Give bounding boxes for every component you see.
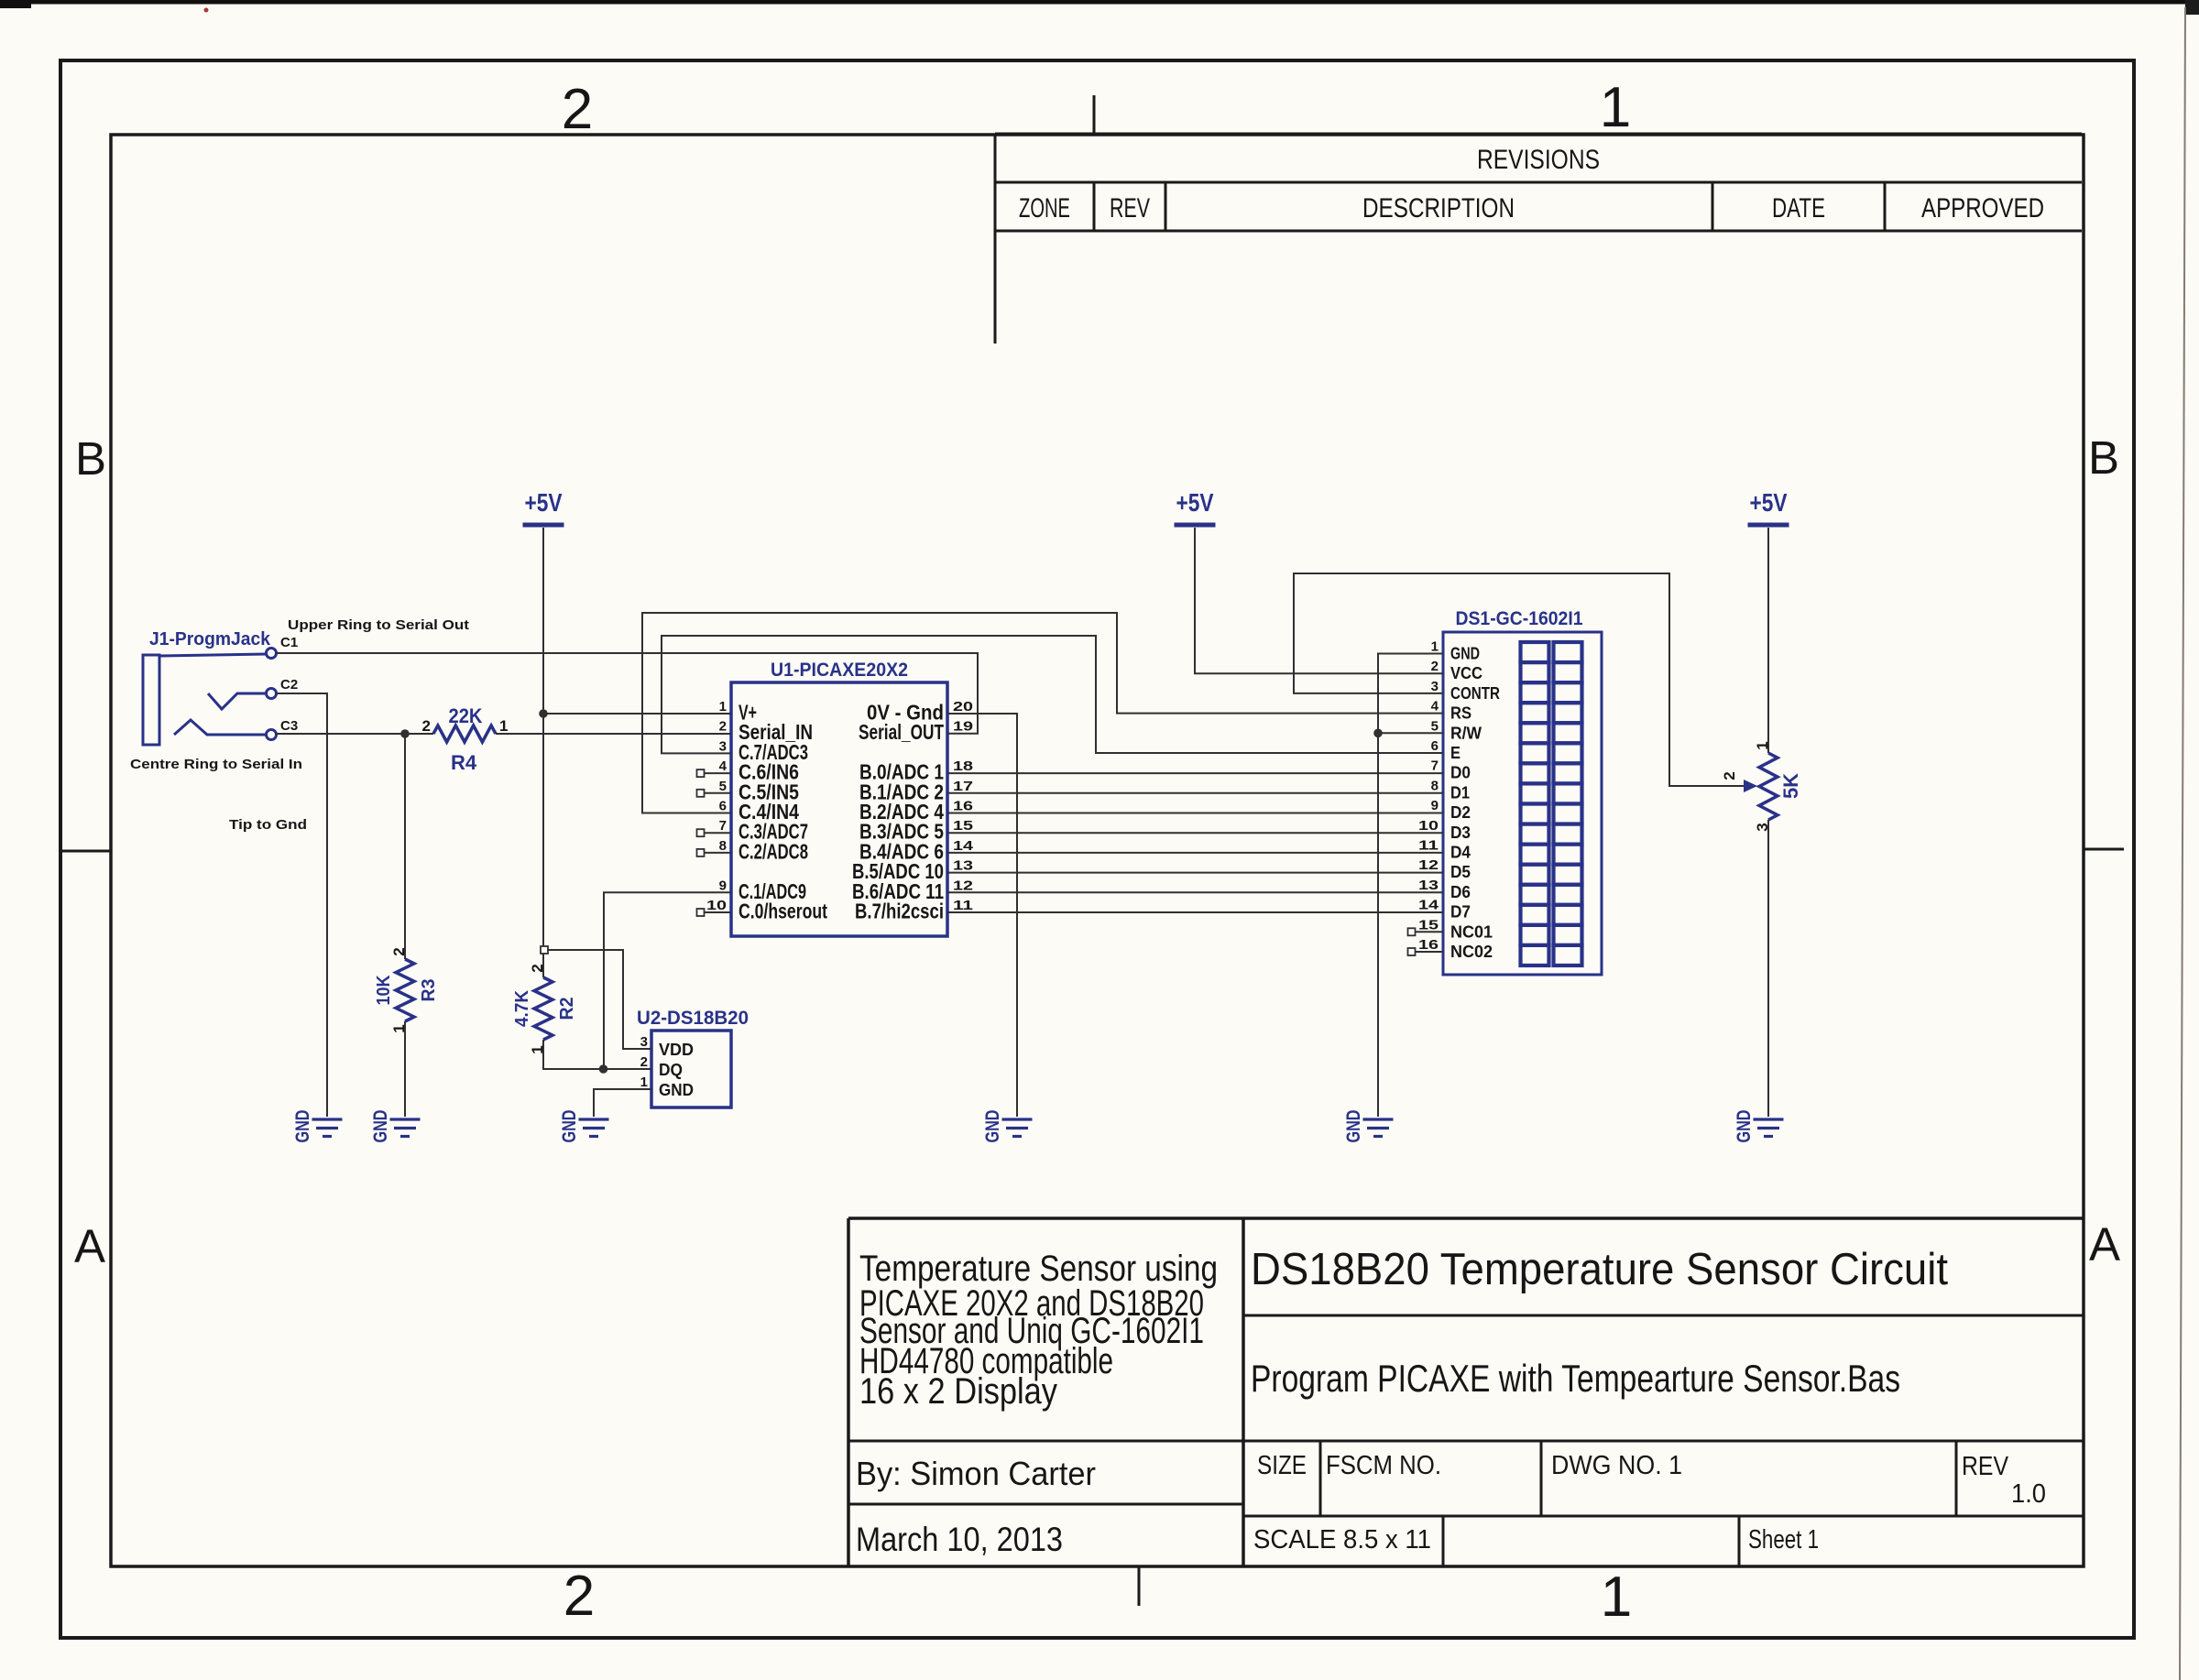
revisions title bbox=[1477, 145, 1600, 175]
wire +5V to pot pin1 bbox=[1767, 528, 1769, 753]
svg-text:D4: D4 bbox=[1450, 844, 1471, 862]
svg-text:J1-ProgmJack: J1-ProgmJack bbox=[149, 629, 271, 649]
svg-text:FSCM NO.: FSCM NO. bbox=[1326, 1451, 1441, 1480]
svg-text:APPROVED: APPROVED bbox=[1921, 193, 2044, 224]
svg-text:D6: D6 bbox=[1450, 883, 1471, 901]
svg-text:D0: D0 bbox=[1450, 764, 1471, 782]
wire VDD branch bbox=[541, 946, 651, 1049]
svg-text:2: 2 bbox=[719, 719, 727, 735]
svg-text:U1-PICAXE20X2: U1-PICAXE20X2 bbox=[771, 660, 908, 681]
svg-text:13: 13 bbox=[953, 858, 973, 874]
svg-text:REV: REV bbox=[1110, 193, 1150, 224]
ic U1 pin names bbox=[738, 701, 944, 923]
svg-text:11: 11 bbox=[953, 898, 973, 913]
svg-text:A: A bbox=[74, 1220, 105, 1272]
svg-text:12: 12 bbox=[953, 878, 973, 893]
svg-text:13: 13 bbox=[1418, 878, 1439, 893]
svg-text:DESCRIPTION: DESCRIPTION bbox=[1362, 193, 1515, 224]
label pot pin3 bbox=[1754, 823, 1771, 831]
display LCD cell column 1 bbox=[1521, 642, 1549, 965]
node DQ junction bbox=[599, 1064, 608, 1074]
jack J1 body bbox=[143, 654, 267, 745]
note tip bbox=[229, 817, 307, 833]
svg-text:16: 16 bbox=[1418, 937, 1439, 953]
svg-text:D3: D3 bbox=[1450, 824, 1471, 842]
svg-text:15: 15 bbox=[1418, 917, 1439, 933]
svg-text:3: 3 bbox=[640, 1034, 648, 1050]
title desc line1 bbox=[859, 1249, 1218, 1289]
node C3 / R3 junction bbox=[400, 729, 410, 738]
zone tick right bbox=[2084, 848, 2124, 851]
display unconnected pins NC01 NC02 bbox=[1408, 928, 1444, 955]
wire C2 to ground bbox=[276, 693, 327, 1117]
resistor R2 4.7K bbox=[534, 977, 552, 1040]
title size bbox=[1257, 1451, 1307, 1480]
svg-text:11: 11 bbox=[1418, 838, 1439, 854]
svg-text:1: 1 bbox=[640, 1075, 648, 1090]
ic U1 unconnected pins 4 5 7 8 10 bbox=[697, 769, 732, 916]
zone tick left bbox=[60, 850, 111, 853]
svg-text:By: Simon Carter: By: Simon Carter bbox=[856, 1455, 1096, 1492]
title program bbox=[1251, 1357, 1900, 1400]
label C3 bbox=[280, 718, 298, 734]
svg-text:DS18B20 Temperature Sensor Cir: DS18B20 Temperature Sensor Circuit bbox=[1251, 1245, 1948, 1294]
label R2 pin1 bbox=[529, 1045, 546, 1053]
zone label A left bbox=[74, 1220, 105, 1272]
label C2 bbox=[280, 677, 298, 693]
ground (pot) bbox=[1734, 1110, 1784, 1143]
display pin names bbox=[1450, 645, 1500, 962]
svg-text:1.0: 1.0 bbox=[2011, 1479, 2046, 1509]
svg-text:10K: 10K bbox=[374, 975, 394, 1005]
svg-text:5: 5 bbox=[719, 779, 727, 794]
title fscm bbox=[1326, 1451, 1441, 1480]
zone label 2 bottom bbox=[563, 1565, 595, 1628]
wire C1 to Serial_OUT bbox=[276, 653, 978, 734]
wire R3 to ground bbox=[404, 1021, 406, 1117]
jack J1 label bbox=[149, 629, 271, 649]
label R3 pin1 bbox=[390, 1024, 408, 1032]
svg-text:NC02: NC02 bbox=[1450, 943, 1493, 961]
svg-text:+5V: +5V bbox=[1750, 488, 1788, 517]
svg-text:+5V: +5V bbox=[1176, 488, 1214, 517]
ic U1-PICAXE20X2 box bbox=[731, 682, 947, 936]
svg-text:22K: 22K bbox=[449, 704, 483, 727]
svg-text:3: 3 bbox=[719, 738, 727, 754]
ground (display) bbox=[1343, 1110, 1394, 1143]
svg-text:C3: C3 bbox=[280, 718, 298, 734]
svg-text:1: 1 bbox=[1600, 76, 1631, 139]
svg-text:U2-DS18B20: U2-DS18B20 bbox=[637, 1008, 749, 1029]
svg-text:Centre Ring to Serial In: Centre Ring to Serial In bbox=[130, 757, 302, 772]
title desc line2 bbox=[859, 1283, 1204, 1324]
svg-text:+5V: +5V bbox=[525, 488, 563, 517]
title by bbox=[856, 1455, 1096, 1492]
svg-text:GND: GND bbox=[1734, 1110, 1755, 1143]
svg-text:NC01: NC01 bbox=[1450, 922, 1493, 941]
title sheet bbox=[1748, 1525, 1819, 1555]
svg-text:4: 4 bbox=[719, 758, 728, 774]
wire pot pin3 to ground bbox=[1767, 820, 1769, 1117]
svg-text:SIZE: SIZE bbox=[1257, 1451, 1307, 1480]
wire C.7/ADC3 to E bbox=[662, 636, 1443, 753]
label 5K bbox=[1779, 773, 1802, 799]
revisions col rev bbox=[1110, 193, 1150, 224]
zone tick top bbox=[1093, 95, 1096, 135]
zone label B left bbox=[75, 432, 106, 485]
svg-text:R3: R3 bbox=[419, 979, 439, 1002]
svg-text:VDD: VDD bbox=[659, 1041, 694, 1059]
+5V symbol right bbox=[1748, 488, 1789, 525]
svg-text:5: 5 bbox=[1431, 718, 1439, 734]
label R4 pin2 bbox=[422, 717, 431, 735]
svg-text:RS: RS bbox=[1450, 704, 1471, 723]
svg-text:2: 2 bbox=[640, 1054, 648, 1070]
svg-text:A: A bbox=[2089, 1218, 2120, 1271]
zone label A right bbox=[2089, 1218, 2120, 1271]
display DS1-GC-1602I1 box bbox=[1443, 632, 1602, 975]
revisions table frame bbox=[995, 134, 2082, 344]
title desc line5 bbox=[859, 1371, 1057, 1412]
title rev bbox=[1962, 1452, 2009, 1481]
zone label 2 top bbox=[562, 78, 593, 141]
title desc line4 bbox=[859, 1341, 1113, 1381]
sensor U2 label bbox=[637, 1008, 749, 1029]
label R3 pin2 bbox=[390, 947, 408, 955]
ground (R3) bbox=[370, 1110, 421, 1143]
svg-text:D1: D1 bbox=[1450, 783, 1470, 802]
svg-text:2: 2 bbox=[1431, 659, 1439, 674]
scan speck red bbox=[204, 8, 209, 13]
svg-text:2: 2 bbox=[562, 78, 593, 141]
wire node to R3 bbox=[404, 734, 406, 959]
potentiometer 5K bbox=[1744, 753, 1778, 820]
label R4 pin1 bbox=[499, 717, 508, 735]
wire U2 GND to ground bbox=[594, 1089, 651, 1117]
svg-text:7: 7 bbox=[1431, 758, 1439, 774]
svg-text:2: 2 bbox=[422, 717, 431, 735]
jack contact C1 bbox=[267, 649, 277, 659]
label R2 bbox=[557, 998, 577, 1020]
svg-text:GND: GND bbox=[659, 1081, 694, 1099]
ground (U2) bbox=[559, 1110, 609, 1143]
node R/W ground junction bbox=[1373, 729, 1383, 738]
note centre ring bbox=[130, 757, 302, 772]
svg-text:15: 15 bbox=[953, 818, 973, 834]
svg-text:5K: 5K bbox=[1779, 773, 1802, 799]
node +5V / V+ junction bbox=[539, 709, 548, 718]
revisions col date bbox=[1772, 193, 1825, 224]
title block frame bbox=[848, 1218, 2084, 1566]
display pin numbers bbox=[1418, 639, 1439, 954]
svg-text:Sheet 1: Sheet 1 bbox=[1748, 1525, 1819, 1555]
svg-text:8: 8 bbox=[1431, 778, 1439, 793]
zone label 1 top bbox=[1600, 76, 1631, 139]
ic U1 pin numbers bbox=[706, 699, 974, 913]
jack contact C2 bbox=[208, 689, 277, 710]
wire +5V to VCC bbox=[1195, 528, 1443, 673]
svg-text:9: 9 bbox=[1431, 798, 1439, 813]
svg-text:16: 16 bbox=[953, 799, 973, 814]
title rev value bbox=[2011, 1479, 2046, 1509]
svg-text:C.2/ADC8: C.2/ADC8 bbox=[738, 839, 808, 863]
svg-text:6: 6 bbox=[1431, 738, 1439, 754]
svg-text:8: 8 bbox=[719, 838, 727, 854]
svg-text:Serial_OUT: Serial_OUT bbox=[859, 720, 944, 744]
wire C.4/IN4 to RS bbox=[642, 613, 1443, 813]
svg-text:Tip to Gnd: Tip to Gnd bbox=[229, 817, 307, 833]
wire R/W to ground rail bbox=[1378, 732, 1443, 734]
svg-text:REVISIONS: REVISIONS bbox=[1477, 145, 1600, 175]
svg-text:14: 14 bbox=[1418, 898, 1439, 913]
svg-text:7: 7 bbox=[719, 818, 727, 834]
svg-text:18: 18 bbox=[953, 758, 973, 774]
svg-text:REV: REV bbox=[1962, 1452, 2009, 1481]
ground (jack sleeve) bbox=[292, 1110, 343, 1143]
svg-text:4: 4 bbox=[1431, 699, 1439, 715]
sensor U2 pin names bbox=[659, 1041, 694, 1099]
svg-text:E: E bbox=[1450, 744, 1461, 762]
svg-text:VCC: VCC bbox=[1450, 664, 1482, 682]
svg-text:17: 17 bbox=[953, 779, 973, 794]
title main bbox=[1251, 1245, 1948, 1294]
svg-text:16 x 2 Display: 16 x 2 Display bbox=[859, 1371, 1057, 1412]
label 4.7K bbox=[512, 989, 532, 1027]
svg-text:GND: GND bbox=[1343, 1110, 1364, 1143]
svg-text:4.7K: 4.7K bbox=[512, 989, 532, 1027]
wire CONTR to pot wiper bbox=[1294, 573, 1744, 786]
title scale bbox=[1253, 1525, 1431, 1555]
zone label B right bbox=[2088, 431, 2119, 484]
svg-text:10: 10 bbox=[706, 898, 727, 913]
label R2 pin2 bbox=[529, 964, 546, 972]
title dwg bbox=[1551, 1451, 1682, 1480]
ic U1 label bbox=[771, 660, 908, 681]
note upper ring bbox=[288, 617, 469, 633]
zone tick bottom bbox=[1138, 1566, 1141, 1606]
svg-text:GND: GND bbox=[292, 1110, 313, 1143]
svg-text:9: 9 bbox=[719, 878, 727, 893]
label R4 bbox=[451, 751, 477, 774]
wire R4 to Serial_IN bbox=[496, 733, 731, 735]
svg-text:12: 12 bbox=[1418, 857, 1439, 873]
title date bbox=[856, 1521, 1063, 1558]
svg-text:D5: D5 bbox=[1450, 863, 1471, 881]
svg-text:GND: GND bbox=[370, 1110, 391, 1143]
svg-text:R4: R4 bbox=[451, 751, 477, 774]
svg-text:SCALE 8.5 x 11: SCALE 8.5 x 11 bbox=[1253, 1525, 1431, 1555]
sensor U2-DS18B20 box bbox=[651, 1031, 731, 1107]
title desc line3 bbox=[859, 1311, 1204, 1351]
svg-text:20: 20 bbox=[953, 699, 973, 715]
svg-text:GND: GND bbox=[1450, 645, 1480, 663]
revisions col zone bbox=[1019, 193, 1070, 224]
svg-text:2: 2 bbox=[1721, 771, 1738, 780]
label R3 bbox=[419, 979, 439, 1002]
wire +5V rail left bbox=[542, 528, 544, 977]
svg-text:1: 1 bbox=[719, 699, 727, 715]
svg-text:ZONE: ZONE bbox=[1019, 193, 1070, 224]
display LCD cell column 2 bbox=[1554, 642, 1582, 965]
label pot pin1 bbox=[1754, 741, 1771, 749]
svg-text:1: 1 bbox=[1431, 639, 1439, 655]
scan edge right bbox=[2180, 7, 2185, 1680]
svg-text:1: 1 bbox=[1601, 1565, 1632, 1629]
svg-text:14: 14 bbox=[953, 838, 974, 854]
svg-text:Upper Ring to Serial Out: Upper Ring to Serial Out bbox=[288, 617, 469, 633]
svg-text:10: 10 bbox=[1418, 818, 1439, 834]
jack contact C3 bbox=[174, 720, 277, 740]
wire data bus B.0-B.7 to D0-D7 bbox=[947, 773, 1443, 912]
scan edge top bbox=[0, 0, 2199, 15]
svg-text:DS1-GC-1602I1: DS1-GC-1602I1 bbox=[1456, 608, 1583, 629]
svg-text:C1: C1 bbox=[280, 635, 298, 650]
wire C.1/ADC9 to DQ bbox=[604, 892, 731, 1069]
+5V symbol left bbox=[523, 488, 564, 525]
svg-text:DATE: DATE bbox=[1772, 193, 1825, 224]
svg-text:March 10, 2013: March 10, 2013 bbox=[856, 1521, 1063, 1558]
svg-text:2: 2 bbox=[563, 1565, 595, 1628]
svg-text:GND: GND bbox=[982, 1110, 1003, 1143]
svg-text:B: B bbox=[75, 432, 106, 485]
svg-text:19: 19 bbox=[953, 719, 973, 735]
revisions col description bbox=[1362, 193, 1515, 224]
sensor U2 pin numbers bbox=[640, 1034, 648, 1090]
svg-text:R/W: R/W bbox=[1450, 724, 1482, 742]
wire 0V-Gnd to ground bbox=[947, 714, 1017, 1117]
label 22K bbox=[449, 704, 483, 727]
resistor R3 10K bbox=[396, 959, 414, 1021]
svg-text:D2: D2 bbox=[1450, 803, 1471, 822]
svg-text:CONTR: CONTR bbox=[1450, 684, 1500, 703]
display DS1 label bbox=[1456, 608, 1583, 629]
+5V symbol middle bbox=[1175, 488, 1216, 525]
svg-text:6: 6 bbox=[719, 799, 727, 814]
svg-text:DQ: DQ bbox=[659, 1061, 683, 1079]
wire R2 to DQ bbox=[543, 1040, 651, 1069]
label pot pin2 bbox=[1721, 771, 1738, 780]
wire +5V to V+ bbox=[543, 713, 731, 715]
svg-text:GND: GND bbox=[559, 1110, 580, 1143]
label 10K bbox=[374, 975, 394, 1005]
revisions col approved bbox=[1921, 193, 2044, 224]
ground (U1 0V) bbox=[982, 1110, 1033, 1143]
wire display GND to ground bbox=[1378, 654, 1443, 1118]
svg-text:C.0/hserout: C.0/hserout bbox=[738, 900, 827, 923]
svg-text:C2: C2 bbox=[280, 677, 298, 693]
svg-text:Program PICAXE with Tempeartur: Program PICAXE with Tempearture Sensor.B… bbox=[1251, 1357, 1900, 1400]
svg-text:3: 3 bbox=[1431, 679, 1439, 694]
wire C3 to R4 bbox=[276, 733, 433, 735]
svg-text:D7: D7 bbox=[1450, 903, 1471, 922]
label C1 bbox=[280, 635, 298, 650]
svg-text:DWG NO. 1: DWG NO. 1 bbox=[1551, 1451, 1682, 1480]
zone label 1 bottom bbox=[1601, 1565, 1632, 1629]
svg-text:R2: R2 bbox=[557, 998, 577, 1020]
resistor R4 22K bbox=[433, 725, 496, 742]
svg-text:B: B bbox=[2088, 431, 2119, 484]
svg-text:1: 1 bbox=[499, 717, 508, 735]
inner border bbox=[111, 135, 2084, 1566]
svg-text:B.7/hi2csci: B.7/hi2csci bbox=[855, 900, 944, 923]
